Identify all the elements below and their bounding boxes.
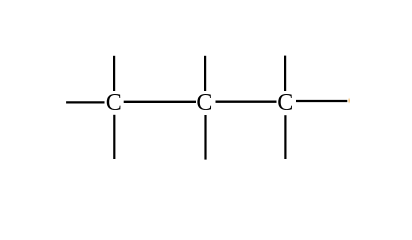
wire: bond stub down from C3: [284, 115, 286, 159]
svg-text:C: C: [106, 90, 122, 116]
wire: bond stub up from C3: [284, 56, 286, 91]
wire: bond C1-C2: [124, 101, 196, 103]
svg-text:C: C: [196, 90, 212, 116]
wire: bond stub down from C1: [113, 115, 115, 159]
wire: bond C2-C3: [216, 101, 277, 103]
wire: left bond stub from C1: [66, 101, 104, 103]
wire: bond stub down from C2: [204, 115, 206, 160]
svg-text:C: C: [277, 90, 293, 116]
wire: right bond stub from C3: [296, 100, 347, 102]
wire: bond stub up from C2: [204, 56, 206, 91]
wire: bond stub up from C1: [113, 56, 115, 91]
artifact smudge right of right stub: [0, 0, 1, 1]
